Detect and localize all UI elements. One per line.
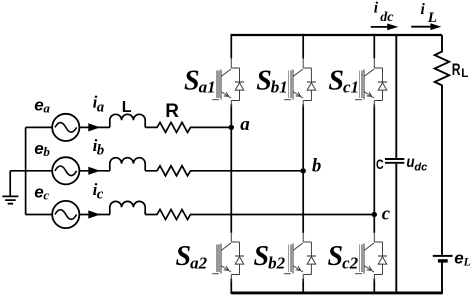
svg-text:S: S bbox=[176, 241, 192, 272]
svg-text:S: S bbox=[184, 66, 200, 97]
svg-text:e: e bbox=[34, 95, 43, 114]
svg-text:e: e bbox=[454, 248, 463, 267]
svg-text:c: c bbox=[43, 188, 49, 203]
svg-text:dc: dc bbox=[380, 10, 394, 25]
svg-text:c: c bbox=[97, 186, 104, 202]
svg-text:b2: b2 bbox=[268, 254, 286, 273]
svg-text:dc: dc bbox=[414, 162, 427, 174]
svg-text:L: L bbox=[122, 99, 132, 116]
svg-text:a: a bbox=[97, 99, 104, 115]
svg-text:i: i bbox=[374, 0, 379, 17]
svg-text:e: e bbox=[34, 183, 43, 202]
svg-text:R: R bbox=[452, 60, 461, 79]
svg-text:S: S bbox=[256, 66, 272, 97]
svg-text:c2: c2 bbox=[342, 254, 359, 273]
svg-text:S: S bbox=[328, 241, 344, 272]
svg-text:L: L bbox=[463, 254, 471, 268]
svg-text:i: i bbox=[421, 1, 426, 18]
svg-text:S: S bbox=[328, 66, 344, 97]
svg-text:L: L bbox=[427, 10, 437, 26]
svg-text:b: b bbox=[43, 144, 50, 159]
svg-text:b: b bbox=[312, 157, 321, 177]
svg-text:a: a bbox=[43, 100, 50, 115]
svg-text:S: S bbox=[254, 241, 270, 272]
svg-text:c1: c1 bbox=[343, 77, 359, 96]
svg-text:a: a bbox=[240, 114, 250, 135]
svg-text:a2: a2 bbox=[190, 254, 208, 273]
svg-text:a1: a1 bbox=[199, 77, 216, 96]
svg-text:e: e bbox=[34, 139, 43, 158]
svg-text:R: R bbox=[165, 101, 179, 122]
svg-text:b1: b1 bbox=[271, 77, 288, 96]
svg-text:c: c bbox=[382, 205, 390, 225]
svg-text:C: C bbox=[376, 157, 384, 172]
svg-text:b: b bbox=[97, 143, 104, 159]
svg-text:L: L bbox=[461, 68, 468, 80]
